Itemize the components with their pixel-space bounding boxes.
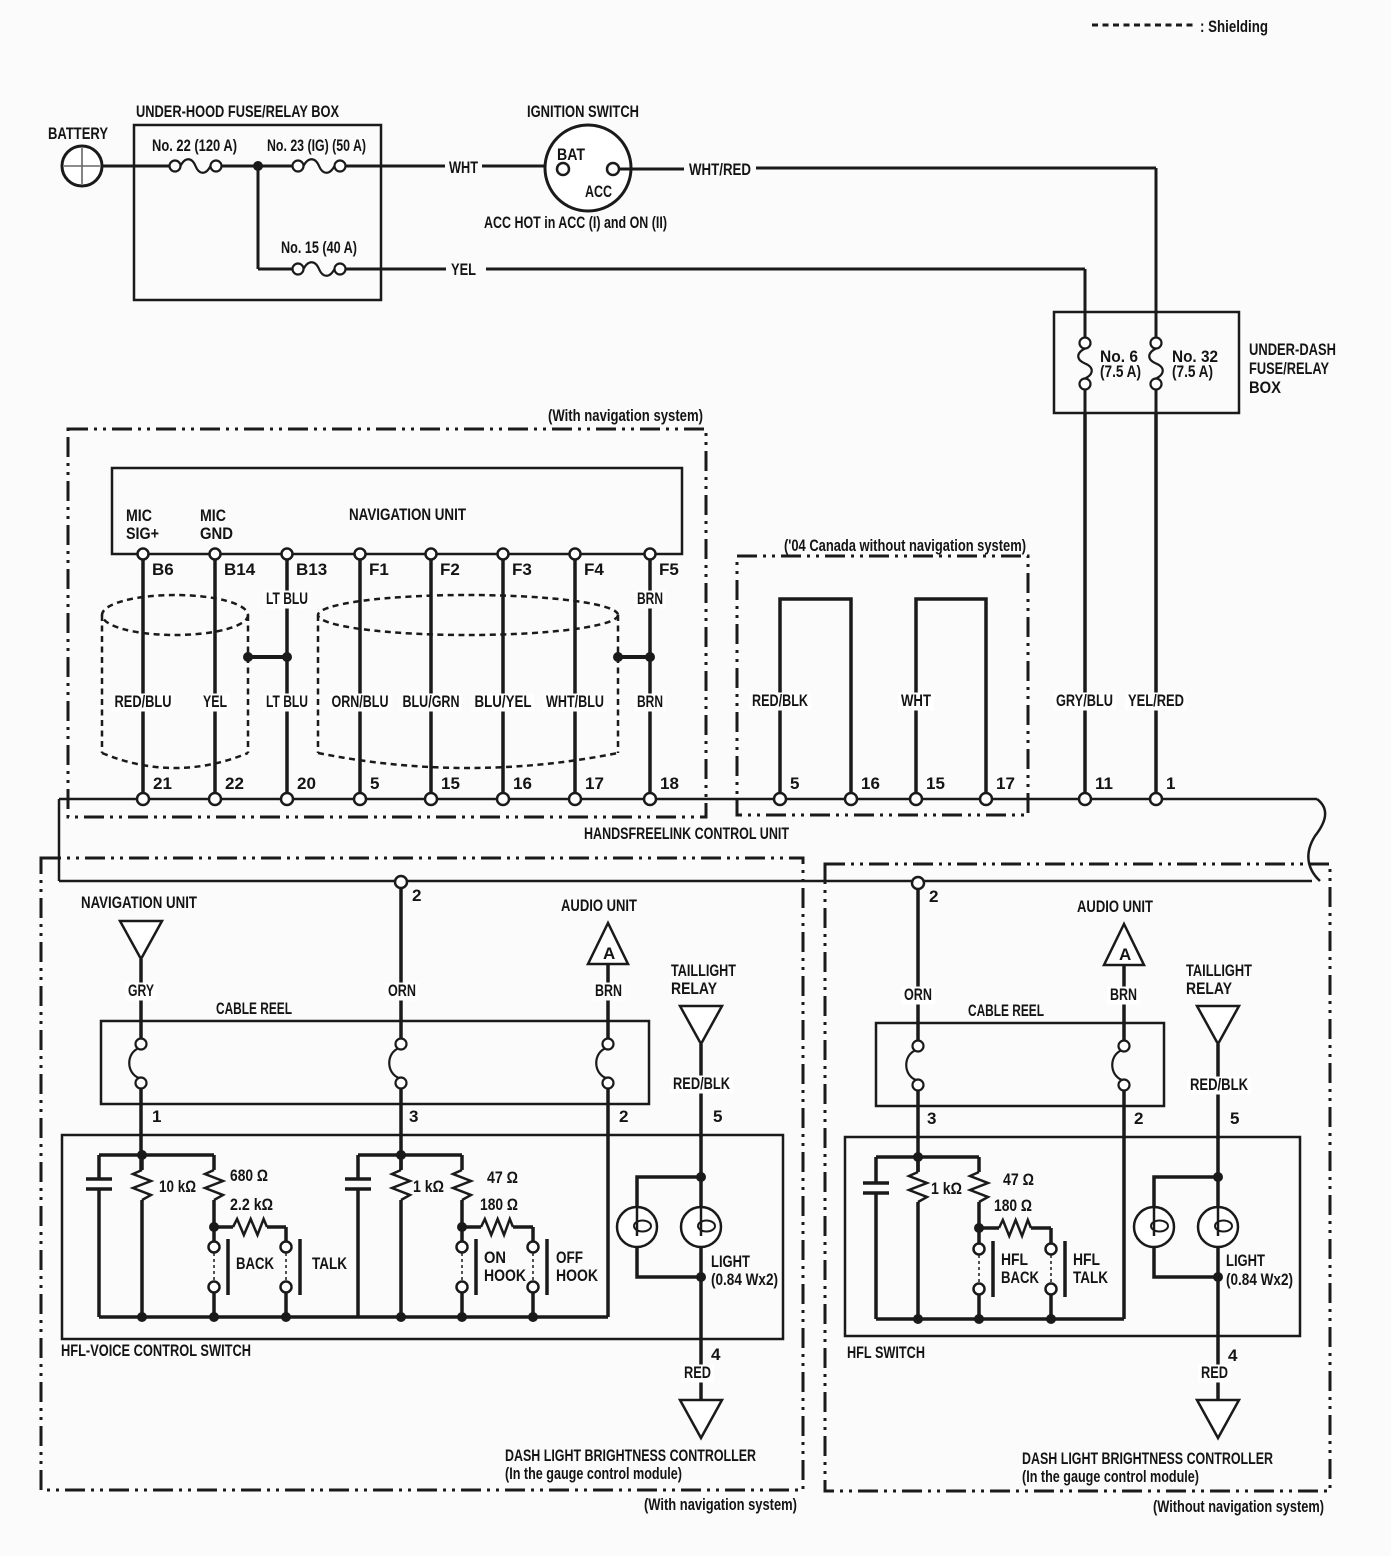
wire RED/BLK taillight relay to switch pin 5 xyxy=(670,1044,733,1137)
wire RED switch pin 4 to dash light controller (right) xyxy=(1198,1277,1238,1400)
wire RED switch pin 4 to dash light controller xyxy=(681,1277,721,1400)
svg-text:RED/BLK: RED/BLK xyxy=(1190,1075,1249,1094)
svg-text:B6: B6 xyxy=(152,560,174,579)
svg-text:A: A xyxy=(603,944,615,963)
wire GRY nav to cable reel xyxy=(125,959,157,1039)
wire LT BLU nav pin B13 to HFL pin 20 xyxy=(263,558,311,794)
HFL control unit top terminals xyxy=(137,774,1175,805)
svg-text:NAVIGATION UNIT: NAVIGATION UNIT xyxy=(349,505,466,524)
svg-text:YEL/RED: YEL/RED xyxy=(1128,691,1184,710)
svg-text:LT BLU: LT BLU xyxy=(266,589,308,608)
handsfreelink control unit box xyxy=(59,799,1325,881)
svg-text:UNDER-DASH: UNDER-DASH xyxy=(1249,340,1336,359)
svg-text:RED/BLK: RED/BLK xyxy=(752,691,809,710)
svg-text:2: 2 xyxy=(412,886,421,905)
navigation unit box xyxy=(112,468,682,554)
svg-text:5: 5 xyxy=(1230,1109,1239,1128)
svg-text:MIC: MIC xyxy=(200,506,226,525)
svg-text:AUDIO UNIT: AUDIO UNIT xyxy=(561,896,637,915)
wire RED/BLU nav pin B6 to HFL pin 21 xyxy=(112,558,175,794)
svg-text:CABLE REEL: CABLE REEL xyxy=(216,999,292,1018)
svg-text:22: 22 xyxy=(225,774,244,793)
resistor 47 Ohm (right) xyxy=(970,1157,1034,1243)
HFL bottom terminal 2 (left) xyxy=(395,876,421,905)
svg-text:ORN/BLU: ORN/BLU xyxy=(332,692,389,711)
svg-text:(Without navigation system): (Without navigation system) xyxy=(1153,1497,1324,1516)
svg-text:IGNITION SWITCH: IGNITION SWITCH xyxy=(527,102,639,121)
svg-text:LIGHT: LIGHT xyxy=(1226,1251,1265,1270)
wire YEL to under-dash fuse box xyxy=(345,260,1085,314)
cable reel box (right) xyxy=(876,1001,1164,1106)
node wire3 junction (right) xyxy=(913,1152,923,1162)
svg-text:MIC: MIC xyxy=(126,506,152,525)
svg-text:(With navigation system): (With navigation system) xyxy=(548,406,703,425)
svg-text:WHT/BLU: WHT/BLU xyxy=(546,692,604,711)
switch BACK xyxy=(209,1239,275,1295)
svg-text:1 kΩ: 1 kΩ xyxy=(931,1179,962,1198)
illumination lights (right) xyxy=(1134,1137,1293,1289)
wire ON HOOK to bus xyxy=(460,1292,464,1317)
svg-text:GRY: GRY xyxy=(128,981,154,1000)
svg-text:20: 20 xyxy=(297,774,316,793)
svg-text:11: 11 xyxy=(1095,774,1113,793)
svg-text:BLU/YEL: BLU/YEL xyxy=(475,692,532,711)
svg-text:TAILLIGHT: TAILLIGHT xyxy=(671,961,736,980)
navigation unit connector (lower left) xyxy=(81,893,197,959)
svg-text:3: 3 xyxy=(927,1109,936,1128)
svg-text:DASH LIGHT BRIGHTNESS CONTROLL: DASH LIGHT BRIGHTNESS CONTROLLER xyxy=(1022,1449,1273,1468)
wire BRN audio to cable reel (right) xyxy=(1107,965,1140,1040)
svg-text:RELAY: RELAY xyxy=(1186,979,1233,998)
svg-text:(With navigation system): (With navigation system) xyxy=(644,1495,797,1514)
svg-text:B13: B13 xyxy=(296,560,327,579)
wire ORN/BLU nav pin F1 to HFL pin 5 xyxy=(329,558,392,794)
svg-text:47 Ω: 47 Ω xyxy=(487,1168,518,1187)
svg-text:YEL: YEL xyxy=(203,692,227,711)
cable reel inline connector x=608 xyxy=(596,1039,613,1089)
dash light brightness controller connector (left) xyxy=(505,1400,756,1483)
wire OFF HOOK to bus xyxy=(531,1292,535,1317)
svg-text:ACC HOT in ACC (I) and ON (II): ACC HOT in ACC (I) and ON (II) xyxy=(484,213,667,232)
under-dash fuse/relay box xyxy=(1054,312,1336,413)
svg-text:5: 5 xyxy=(713,1107,722,1126)
svg-text:ORN: ORN xyxy=(388,981,416,1000)
capacitor C1 xyxy=(97,1155,101,1179)
shield drain link to LT BLU wire xyxy=(243,589,311,662)
svg-text:GND: GND xyxy=(200,524,233,543)
switch internal top wire (right) xyxy=(876,1155,979,1159)
svg-text:BATTERY: BATTERY xyxy=(48,124,109,143)
fuse No.6 (7.5 A) xyxy=(1078,312,1141,414)
svg-text:BOX: BOX xyxy=(1249,378,1282,397)
svg-text:('04 Canada without navigation: ('04 Canada without navigation system) xyxy=(784,536,1026,555)
wire cable reel pin 3 to switch (right) xyxy=(918,1091,936,1172)
svg-text:BLU/GRN: BLU/GRN xyxy=(403,692,460,711)
wire WHT/BLU nav pin F4 to HFL pin 17 xyxy=(543,558,607,794)
svg-text:F2: F2 xyxy=(440,560,460,579)
svg-text:YEL: YEL xyxy=(451,260,476,279)
under-hood fuse/relay box xyxy=(134,102,381,300)
fuse No.22 (120 A) xyxy=(152,136,237,173)
svg-text:BRN: BRN xyxy=(637,589,663,608)
svg-text:5: 5 xyxy=(790,774,799,793)
cable reel inline connector (right) x=918 xyxy=(906,1041,923,1091)
nav unit terminals xyxy=(138,549,679,580)
svg-text:15: 15 xyxy=(441,774,460,793)
svg-text:FUSE/RELAY: FUSE/RELAY xyxy=(1249,359,1329,378)
wire YEL nav pin B14 to HFL pin 22 xyxy=(200,558,230,794)
cable reel inline connector x=141 xyxy=(129,1039,146,1089)
wire BACK to bus xyxy=(212,1292,216,1317)
svg-text:ON: ON xyxy=(484,1248,506,1267)
svg-text:LT BLU: LT BLU xyxy=(266,692,308,711)
wire BLU/YEL nav pin F3 to HFL pin 16 xyxy=(472,558,535,794)
shielding legend xyxy=(1092,17,1268,36)
svg-text:BACK: BACK xyxy=(236,1254,275,1273)
capacitor C3 xyxy=(874,1157,878,1183)
svg-text:No. 23 (IG) (50 A): No. 23 (IG) (50 A) xyxy=(267,136,366,155)
svg-text:TAILLIGHT: TAILLIGHT xyxy=(1186,961,1252,980)
svg-text:4: 4 xyxy=(711,1345,721,1364)
svg-text:680 Ω: 680 Ω xyxy=(230,1166,268,1185)
svg-text:NAVIGATION UNIT: NAVIGATION UNIT xyxy=(81,893,197,912)
wire loop WHT HFL pins 15-17 xyxy=(898,599,986,795)
svg-text:10 kΩ: 10 kΩ xyxy=(159,1177,196,1196)
fuse No.23 (IG) (50 A) xyxy=(267,136,366,173)
switch HFL BACK xyxy=(974,1241,1040,1297)
wire fuse22 to fuse23 xyxy=(221,165,293,168)
resistor 180 Ohm (right) xyxy=(979,1196,1051,1243)
svg-text:RED/BLU: RED/BLU xyxy=(115,692,172,711)
svg-text:BRN: BRN xyxy=(637,692,663,711)
dash-dot box (Without navigation system) xyxy=(825,864,1330,1516)
svg-text:(0.84 Wx2): (0.84 Wx2) xyxy=(1226,1270,1293,1289)
svg-text:HFL SWITCH: HFL SWITCH xyxy=(847,1343,925,1362)
svg-text:(In the gauge control module): (In the gauge control module) xyxy=(1022,1467,1199,1486)
switch HFL TALK xyxy=(1046,1241,1109,1297)
wire HFL BACK to bus xyxy=(977,1294,981,1319)
svg-text:180 Ω: 180 Ω xyxy=(994,1196,1032,1215)
svg-text:BAT: BAT xyxy=(557,145,586,164)
shield cylinder around RED/BLU and YEL wires xyxy=(102,595,248,635)
switch internal top wire left group xyxy=(99,1153,214,1157)
wire BRN nav pin F5 to HFL pin 18 xyxy=(634,558,666,794)
svg-text:HANDSFREELINK CONTROL UNIT: HANDSFREELINK CONTROL UNIT xyxy=(584,824,789,843)
resistor 10 kOhm xyxy=(133,1155,196,1317)
resistor 680 Ohm xyxy=(205,1155,268,1241)
svg-text:16: 16 xyxy=(861,774,880,793)
node 47/180 junction (right) xyxy=(974,1223,984,1233)
svg-text:LIGHT: LIGHT xyxy=(711,1252,750,1271)
switch internal top wire middle group xyxy=(358,1153,462,1157)
cable reel box (left) xyxy=(101,999,649,1104)
wire ORN HFL 2 to cable reel (right) xyxy=(901,889,935,1041)
svg-text:BRN: BRN xyxy=(1110,985,1137,1004)
svg-text:GRY/BLU: GRY/BLU xyxy=(1056,691,1113,710)
svg-text:WHT/RED: WHT/RED xyxy=(689,160,751,179)
svg-text:HOOK: HOOK xyxy=(484,1266,527,1285)
HFL-voice control switch box xyxy=(61,1135,783,1360)
svg-text:A: A xyxy=(1119,945,1131,964)
wire loop RED/BLK HFL pins 5-16 xyxy=(749,599,851,795)
switch common bus (right) xyxy=(876,1314,1124,1324)
svg-text:AUDIO UNIT: AUDIO UNIT xyxy=(1077,897,1153,916)
wire battery to fuse box xyxy=(102,165,170,168)
svg-text:F5: F5 xyxy=(659,560,679,579)
svg-text:: Shielding: : Shielding xyxy=(1200,17,1268,36)
wire ORN HFL 2 to cable reel xyxy=(385,888,419,1039)
node 47/180 junction xyxy=(457,1222,467,1232)
svg-text:UNDER-HOOD FUSE/RELAY BOX: UNDER-HOOD FUSE/RELAY BOX xyxy=(136,102,339,121)
switch ON HOOK xyxy=(457,1239,527,1295)
svg-text:2: 2 xyxy=(619,1107,628,1126)
wire YEL/RED fuse32 to HFL pin 1 xyxy=(1125,413,1187,794)
svg-text:2.2 kΩ: 2.2 kΩ xyxy=(230,1195,273,1214)
svg-text:RED: RED xyxy=(1201,1363,1228,1382)
svg-text:RED: RED xyxy=(684,1363,711,1382)
svg-text:(7.5 A): (7.5 A) xyxy=(1100,362,1141,381)
resistor 47 Ohm xyxy=(453,1155,518,1241)
dash-dot box (With navigation system) upper xyxy=(68,406,706,817)
switch common bus (left) xyxy=(99,1312,608,1322)
svg-text:BRN: BRN xyxy=(595,981,622,1000)
svg-text:18: 18 xyxy=(660,774,679,793)
svg-text:ORN: ORN xyxy=(904,985,932,1004)
svg-text:15: 15 xyxy=(926,774,945,793)
resistor 180 Ohm xyxy=(462,1195,533,1241)
svg-text:B14: B14 xyxy=(224,560,256,579)
node wire1 junction xyxy=(137,1150,147,1160)
ignition switch xyxy=(484,102,667,232)
resistor 1 kOhm (right) xyxy=(909,1157,962,1319)
svg-text:1: 1 xyxy=(152,1107,161,1126)
wire cable reel pin 2 to switch bus (right) xyxy=(1124,1091,1143,1319)
svg-text:47 Ω: 47 Ω xyxy=(1003,1170,1034,1189)
svg-text:No. 22 (120 A): No. 22 (120 A) xyxy=(152,136,237,155)
svg-text:RELAY: RELAY xyxy=(671,979,718,998)
node junction fuse22/fuse23/fuse15 xyxy=(253,161,263,171)
svg-text:TALK: TALK xyxy=(312,1254,348,1273)
svg-text:F4: F4 xyxy=(584,560,604,579)
svg-text:F3: F3 xyxy=(512,560,532,579)
svg-text:No. 15 (40 A): No. 15 (40 A) xyxy=(281,238,357,257)
svg-text:21: 21 xyxy=(153,774,172,793)
svg-text:HFL: HFL xyxy=(1073,1250,1100,1269)
svg-text:17: 17 xyxy=(585,774,604,793)
taillight relay connector (left) xyxy=(671,961,736,1044)
wire RED/BLK taillight relay to switch pin 5 (right) xyxy=(1187,1044,1251,1139)
capacitor C2 xyxy=(356,1155,360,1179)
battery xyxy=(48,124,109,186)
audio unit connector (left) xyxy=(561,896,637,964)
cable reel inline connector (right) x=1124 xyxy=(1112,1041,1129,1091)
wire GRY/BLU fuse6 to HFL pin 11 xyxy=(1053,413,1116,794)
svg-text:HOOK: HOOK xyxy=(556,1266,599,1285)
wire BLU/GRN nav pin F2 to HFL pin 15 xyxy=(400,558,463,794)
svg-text:(0.84 Wx2): (0.84 Wx2) xyxy=(711,1270,778,1289)
wire cable reel pin 3 to switch xyxy=(401,1089,418,1170)
resistor 2.2 kOhm xyxy=(214,1195,286,1241)
svg-text:3: 3 xyxy=(409,1107,418,1126)
cable reel inline connector x=401 xyxy=(389,1039,406,1089)
HFL bottom terminal 2 (right) xyxy=(912,877,938,906)
svg-text:RED/BLK: RED/BLK xyxy=(673,1074,731,1093)
shield drain link to BRN wire xyxy=(613,589,666,662)
wire HFL TALK to bus xyxy=(1049,1294,1053,1319)
fuse No.15 (40 A) xyxy=(281,238,357,276)
svg-text:(7.5 A): (7.5 A) xyxy=(1172,362,1213,381)
svg-text:CABLE REEL: CABLE REEL xyxy=(968,1001,1044,1020)
dash light brightness controller connector (right) xyxy=(1022,1400,1273,1486)
resistor 1 kOhm xyxy=(392,1155,444,1317)
svg-text:WHT: WHT xyxy=(901,691,931,710)
svg-text:(In the gauge control module): (In the gauge control module) xyxy=(505,1464,682,1483)
svg-text:ACC: ACC xyxy=(585,182,612,201)
svg-text:OFF: OFF xyxy=(556,1248,583,1267)
svg-text:5: 5 xyxy=(370,774,379,793)
wire junction down to fuse15 xyxy=(257,166,260,269)
taillight relay connector (right) xyxy=(1186,961,1252,1044)
switch OFF HOOK xyxy=(528,1239,599,1295)
svg-text:BACK: BACK xyxy=(1001,1268,1040,1287)
wire cable reel pin 1 to switch xyxy=(141,1089,161,1170)
svg-text:180 Ω: 180 Ω xyxy=(480,1195,518,1214)
svg-text:TALK: TALK xyxy=(1073,1268,1109,1287)
HFL switch box xyxy=(845,1137,1300,1362)
audio unit connector (right) xyxy=(1077,897,1153,965)
shield cylinder around F1-F4 wires xyxy=(318,595,618,635)
fuse No.32 (7.5 A) xyxy=(1149,312,1218,414)
svg-text:2: 2 xyxy=(1134,1109,1143,1128)
dash-dot box (With navigation system) lower xyxy=(41,858,803,1514)
svg-text:2: 2 xyxy=(929,887,938,906)
node wire3 junction xyxy=(396,1150,406,1160)
svg-text:HFL: HFL xyxy=(1001,1250,1028,1269)
illumination lights (left) xyxy=(617,1135,778,1289)
wire BRN audio to cable reel xyxy=(592,964,625,1039)
wire cable reel pin 2 to switch bus xyxy=(608,1089,628,1317)
wire TALK to bus xyxy=(284,1292,288,1317)
svg-text:F1: F1 xyxy=(369,560,389,579)
svg-text:1: 1 xyxy=(1166,774,1175,793)
svg-text:HFL-VOICE CONTROL SWITCH: HFL-VOICE CONTROL SWITCH xyxy=(61,1341,251,1360)
svg-text:WHT: WHT xyxy=(449,158,478,177)
svg-text:SIG+: SIG+ xyxy=(126,524,159,543)
dash-dot box ('04 Canada without navigation system) xyxy=(737,536,1028,815)
svg-text:16: 16 xyxy=(513,774,532,793)
svg-text:DASH LIGHT BRIGHTNESS CONTROLL: DASH LIGHT BRIGHTNESS CONTROLLER xyxy=(505,1446,756,1465)
node 680/2.2k junction xyxy=(209,1222,219,1232)
svg-text:17: 17 xyxy=(996,774,1015,793)
svg-text:1 kΩ: 1 kΩ xyxy=(413,1177,444,1196)
wire WHT to ignition switch xyxy=(345,158,562,177)
svg-text:4: 4 xyxy=(1228,1346,1238,1365)
switch TALK xyxy=(281,1239,348,1295)
wire WHT/RED ignition to under-dash fuse box xyxy=(619,160,1156,314)
